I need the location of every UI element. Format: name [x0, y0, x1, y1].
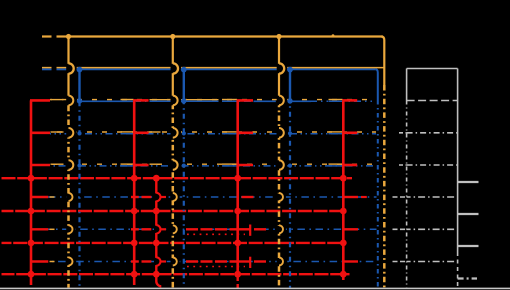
wire ladder lead-in row7	[393, 228, 407, 230]
hop orange column 1 over row6	[69, 193, 73, 201]
hop orange column 1 over row7	[69, 225, 73, 233]
node red junction bus2 column C	[234, 208, 241, 215]
wire ladder rung row3	[407, 100, 458, 102]
wire red stub column D at row8	[343, 260, 358, 262]
wire ladder stub 1	[458, 181, 479, 183]
wire orange dash after stub B at row5	[150, 163, 161, 165]
node blue junction row3 col3	[287, 98, 292, 103]
wire red stub column D at row4	[342, 132, 357, 135]
wire orange dash after stub A at row5	[51, 163, 64, 165]
wire row 3 blue strand solid part	[80, 100, 135, 102]
hop orange column 3 over row8	[279, 258, 283, 266]
hop orange column 2 over row8	[173, 258, 177, 266]
node red junction bus3 column A	[28, 240, 35, 247]
wire red stub column C at row3	[237, 99, 253, 102]
hop orange column 2 over row7	[173, 225, 177, 233]
node red junction bus3 column C	[234, 240, 241, 247]
node orange tick on row1	[332, 34, 335, 37]
wire switch column 1 orange vertical solid upper	[67, 37, 69, 106]
wire orange dash after stub A at row4	[51, 131, 64, 133]
node red junction bus3 column D	[340, 240, 347, 247]
wire orange dash after stub B at row4	[150, 131, 161, 133]
node red junction bus4 column B2	[153, 271, 160, 278]
hop orange column 2 over row2	[173, 63, 178, 73]
wire red stub column A at row7	[30, 228, 48, 230]
wire gray bottom boundary	[0, 287, 510, 289]
wire row 3 blue strand	[136, 100, 376, 102]
wire ladder lead-in row4	[399, 132, 407, 134]
wire L1 top feed bus (orange, row 1) dashed lead-in	[42, 35, 52, 37]
wire red bus row B4 dashed	[2, 273, 350, 275]
node red junction bus4 column B1	[131, 271, 138, 278]
node blue junction row5 col1	[77, 164, 81, 168]
wire row 2 orange lamp wire	[66, 67, 384, 69]
wire red dotted trace below row7	[187, 233, 245, 235]
wire two-tone dash before column D row y165	[329, 163, 343, 165]
wire ladder lead-in row8	[393, 261, 407, 263]
hop clearances on verticals (background)	[67, 64, 70, 73]
wire red stub column A at row8	[30, 260, 48, 262]
wire two-tone dash before column C row y100	[222, 99, 237, 101]
wire orange dash before hop row 7	[50, 228, 55, 230]
wire blue drop column 2 dash-dot	[183, 101, 185, 287]
wire red bus row B3 dashed	[2, 242, 345, 244]
node red junction bus1 column B2	[153, 175, 160, 182]
node red junction bus1 column B1	[131, 175, 138, 182]
wire two-tone dash before column B row y132	[121, 131, 134, 133]
node blue junction row5 col3	[288, 164, 292, 168]
hop orange column 2 over row4	[173, 128, 178, 138]
wire ladder rung row5	[407, 164, 458, 166]
wire ladder lead-in row6	[393, 196, 407, 198]
node red junction bus3 column B2	[153, 240, 160, 247]
node red junction bus2 column B2	[153, 208, 160, 215]
wire red stub column C at row4	[237, 132, 253, 135]
wire ladder rung row7	[407, 228, 458, 230]
wire orange dash before hop row 8	[50, 261, 55, 263]
hop orange column 1 over row8	[69, 258, 73, 266]
wire red stub column A at row3	[30, 99, 50, 102]
wire red dash after B2 hop at row8	[160, 260, 166, 262]
wire red dash column B left at row8	[131, 260, 139, 262]
wire switch column 2 orange vertical dash-dot	[172, 106, 175, 288]
hop orange column 3 over row4	[279, 128, 284, 138]
node orange junction row1 col2	[170, 34, 175, 39]
node blue junction row2 col1	[77, 67, 83, 73]
wire switch column 2 orange vertical solid upper	[172, 37, 174, 106]
wire row 2 orange lamp wire dashed lead-in	[42, 67, 52, 69]
wire red dotted trace below row8	[187, 266, 245, 268]
node orange junction row1 col1	[66, 34, 71, 39]
wire red dash column B left at row6	[131, 196, 139, 198]
wire orange dash before hop row 6	[50, 196, 55, 198]
wire ladder left rail dash-dot	[406, 101, 408, 289]
wire switch column 3 orange vertical dash-dot	[278, 106, 281, 288]
hop orange column 2 over row5	[173, 160, 178, 170]
wire red bus row B1 dashed	[2, 177, 353, 179]
wire ladder stub 4 dashed	[458, 277, 477, 279]
wire red extra dash column D at row6	[361, 196, 367, 198]
node red junction bus4 column C	[234, 271, 241, 278]
wire two-tone dash before column D row y100	[329, 99, 343, 101]
node blue junction row4 col3	[288, 131, 292, 135]
wire orange riser right with corner	[381, 37, 384, 86]
wire red jumper column B2 vertical	[155, 178, 157, 279]
wire red bus row B2 dashed	[2, 210, 345, 212]
wire red dash after B2 hop at row7	[160, 228, 166, 230]
wire red dash column B right at row7	[142, 228, 152, 230]
wire row 2 blue neutral dashed lead-in	[42, 68, 52, 70]
node red junction bus2 column D	[340, 208, 347, 215]
wire ladder left rail solid upper	[406, 69, 408, 101]
wire red stub column B at row5	[133, 164, 148, 167]
node red junction bus2 column B1	[131, 208, 138, 215]
wire red dash right of hook at row7	[254, 228, 266, 230]
hop clearances (background)	[66, 63, 77, 75]
wire orange riser right dash-dot	[383, 85, 386, 288]
wire red stub column B at row3	[133, 99, 148, 102]
jumper red hook column C at row7	[238, 228, 251, 230]
hop orange column 3 over row7	[279, 225, 283, 233]
hop red jumper B2 over row8	[156, 257, 160, 265]
wire blue drop column 1 solid upper	[78, 69, 80, 101]
wire red contact column B vertical	[133, 100, 136, 285]
wire switch column 3 orange vertical solid upper	[278, 37, 280, 106]
wire red contact column A vertical	[30, 100, 33, 285]
wire red dash right of hook at row8	[254, 260, 266, 262]
hop red jumper B2 over row6	[156, 193, 160, 201]
wire ladder right rail solid	[457, 69, 459, 253]
wire red dash column B left at row7	[131, 228, 139, 230]
wire red jumper column B2 bottom curl	[156, 280, 161, 287]
wire row 5 orange strand	[50, 163, 376, 165]
hop orange column 2 over row3	[173, 96, 178, 106]
node red junction bus4 column D	[340, 271, 347, 278]
hop orange column 1 over row2	[69, 63, 74, 73]
wire ladder rung row4	[407, 132, 458, 134]
wire blue drop column 1 dash-dot	[78, 101, 80, 287]
wire ladder rung row6	[407, 196, 458, 198]
wire red contact column C dashed tail	[236, 277, 238, 289]
wire red contact column D vertical	[342, 100, 345, 280]
hop orange column 3 over row3	[279, 96, 284, 106]
wire red stub column B at row4	[133, 132, 148, 135]
wire red dash column B right at row8	[142, 260, 152, 262]
node blue junction row4 col2	[182, 131, 186, 135]
wire blue drop right dash-dot	[377, 100, 379, 288]
wire row 3 blue solid seg U3-D	[290, 100, 311, 102]
wire red stub column D at row6	[343, 196, 358, 198]
wire blue return row 7 dash-dot	[48, 228, 377, 230]
wire ladder stub 2	[458, 213, 479, 215]
wire switch column 1 orange vertical dash-dot	[67, 106, 70, 288]
hop red jumper B2 over row7	[156, 225, 160, 233]
wire red stub column A at row4	[30, 132, 50, 135]
wire blue return row 6 dash-dot	[48, 196, 377, 198]
wire L1 top feed bus (orange, row 1)	[66, 35, 383, 37]
node red junction bus1 column D	[340, 175, 347, 182]
wire row 3 orange strand	[50, 99, 376, 101]
wire row 4 blue strand	[50, 133, 376, 135]
node blue junction row2 col2	[181, 67, 187, 73]
node red junction bus1 column C	[234, 175, 241, 182]
wire orange dash after stub A at row3	[51, 99, 64, 101]
hop orange column 1 over row4	[69, 128, 74, 138]
hop orange column 3 over row5	[279, 160, 284, 170]
wire blue drop column 3 solid upper	[289, 69, 291, 101]
wire ladder lead-in row5	[399, 164, 407, 166]
wire ladder right rail dashed lower	[457, 252, 459, 288]
wire red stub column D at row7	[343, 228, 358, 230]
wire red link B2-C overlay at row8	[186, 260, 237, 262]
node red junction bus3 column B1	[131, 240, 138, 247]
wire ladder top rung	[407, 68, 458, 70]
hop orange column 3 over row6	[279, 193, 283, 201]
jumper red hook column C at row8	[238, 260, 251, 262]
node blue junction row4 col1	[77, 131, 81, 135]
node blue junction row2 col3	[287, 67, 293, 73]
node red junction bus4 column A	[28, 271, 35, 278]
wire red stub column D at row5	[342, 164, 357, 167]
node red junction bus1 column A	[28, 175, 35, 182]
wire red stub column C at row5	[237, 164, 253, 167]
wire row 3 blue solid seg C-O3	[254, 100, 276, 102]
wire row 4 orange strand	[50, 131, 376, 133]
node blue junction row3 col1	[77, 98, 82, 103]
wire ladder stub 3	[458, 245, 479, 247]
hop orange column 3 over row2	[279, 63, 284, 73]
wire red dash after B2 hop at row6	[160, 196, 166, 198]
wire red stub column A at row5	[30, 164, 50, 167]
wire two-tone dash before column B row y165	[121, 163, 134, 165]
wire blue return row 8 dash-dot	[48, 261, 377, 263]
wire red dash right of column C at row6	[242, 196, 254, 198]
node orange junction row1 col3	[276, 34, 281, 39]
wire row 2 blue neutral	[66, 68, 376, 70]
node blue junction row5 col2	[182, 164, 186, 168]
wire two-tone dash before column C row y132	[222, 131, 237, 133]
wire red contact column C vertical	[236, 100, 239, 277]
node red junction bus2 column A	[28, 208, 35, 215]
wire red link B2-C overlay at row7	[186, 228, 237, 230]
wire red dash column B right at row6	[142, 196, 152, 198]
wire blue drop right with corner	[376, 69, 378, 100]
wire blue drop column 2 solid upper	[183, 69, 185, 101]
wire red stub column A at row6	[30, 196, 48, 198]
wire blue drop column 3 dash-dot	[289, 101, 291, 287]
wire row 3 two-tone solid B-C	[150, 99, 219, 101]
wire two-tone dash before column D row y132	[329, 131, 343, 133]
wire ladder rung row8	[407, 261, 458, 263]
hop orange column 2 over row6	[173, 193, 177, 201]
hop orange column 1 over row5	[69, 160, 74, 170]
wire red stub column D at row3	[342, 99, 357, 102]
wire two-tone dash before column C row y165	[222, 163, 237, 165]
wire two-tone dash before column B row y100	[121, 99, 134, 101]
hop orange column 1 over row3	[69, 96, 74, 106]
wire row 5 blue strand	[50, 165, 376, 167]
node blue junction row3 col2	[181, 98, 186, 103]
